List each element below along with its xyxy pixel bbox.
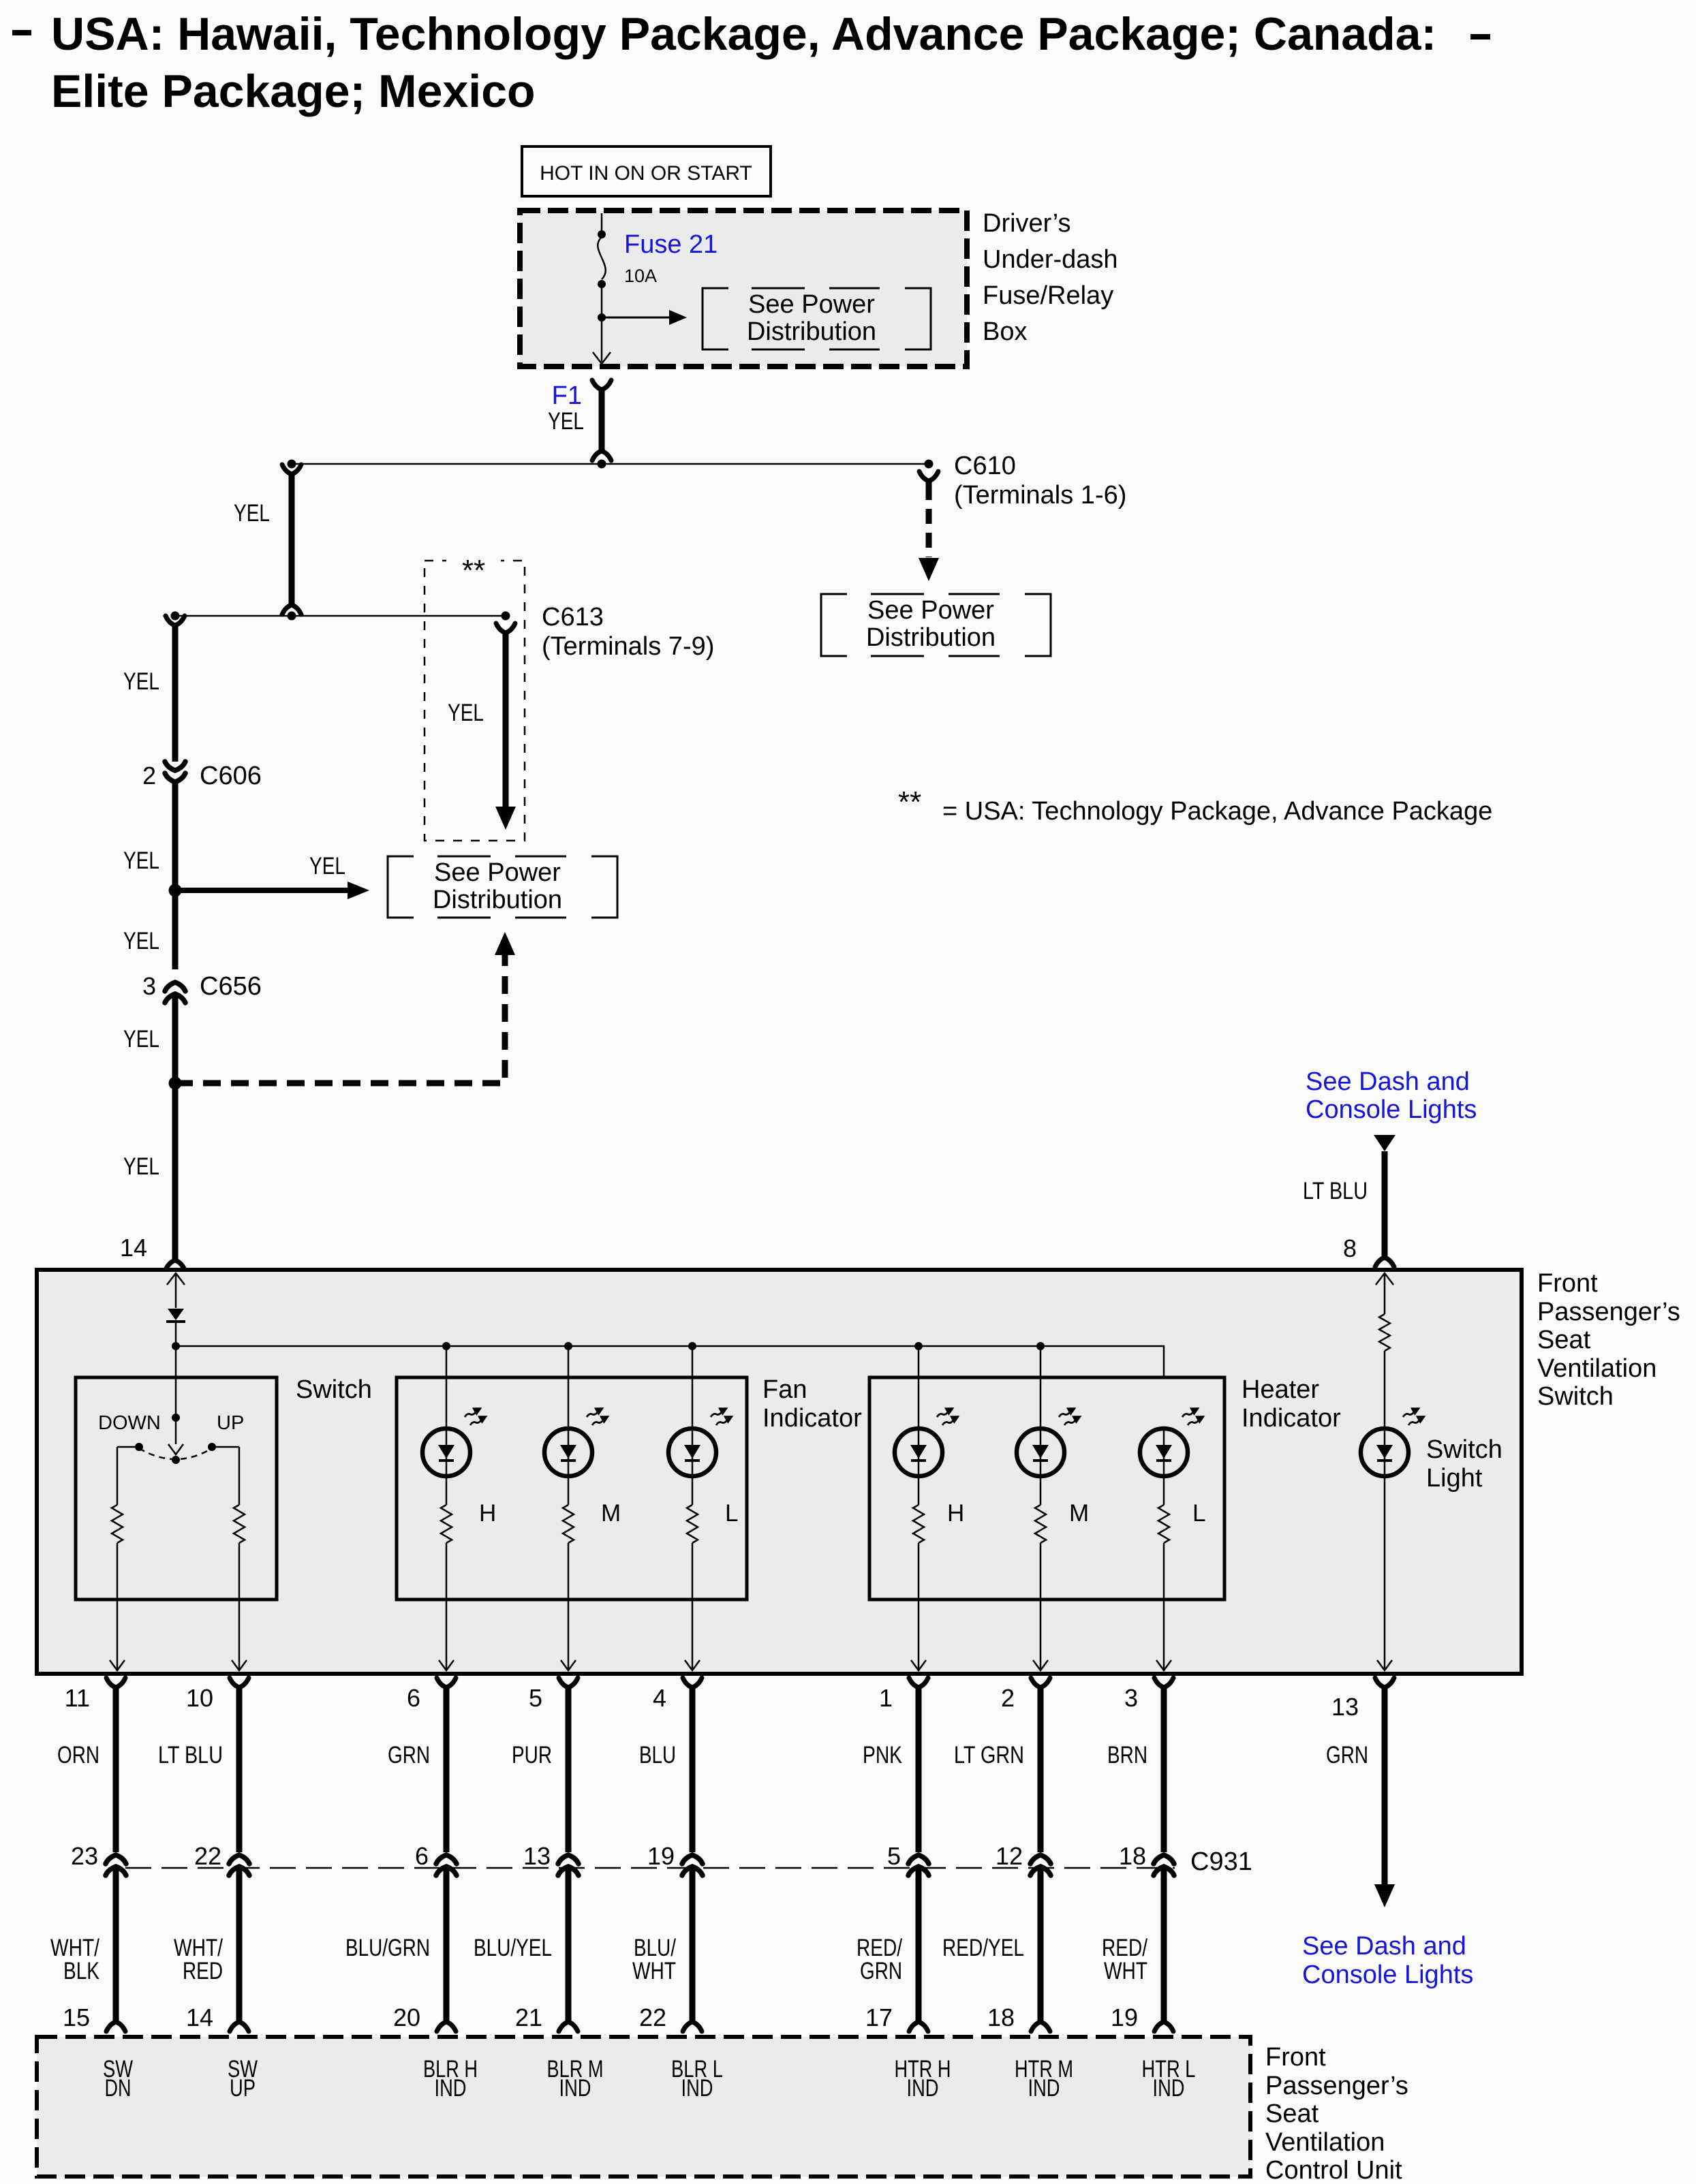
junction (914, 1342, 923, 1350)
junction + dashed branch up to power distribution (169, 1077, 182, 1090)
svg-text:17: 17 (865, 2003, 893, 2031)
svg-text:IND: IND (1028, 2075, 1060, 2102)
wire YEL (172, 783, 179, 969)
svg-text:22: 22 (194, 1842, 221, 1870)
svg-text:Elite Package; Mexico: Elite Package; Mexico (51, 65, 536, 117)
svg-text:PUR: PUR (512, 1742, 552, 1768)
fuse Fuse 21 10A (598, 237, 606, 279)
svg-text:21: 21 (515, 2003, 542, 2031)
connector C931 pin 19 (682, 1855, 703, 1864)
svg-text:BLK: BLK (63, 1958, 99, 1984)
svg-text:DN: DN (105, 2075, 132, 2102)
svg-text:5: 5 (887, 1842, 901, 1870)
heater LED M (1040, 1346, 1042, 1429)
svg-text:GRN: GRN (1326, 1742, 1368, 1768)
svg-text:12: 12 (996, 1842, 1023, 1870)
junction on bus line 1 (598, 460, 606, 469)
svg-text:Seat: Seat (1537, 1326, 1591, 1354)
svg-text:M: M (601, 1500, 621, 1527)
svg-text:YEL: YEL (123, 668, 159, 695)
svg-text:LT GRN: LT GRN (954, 1742, 1024, 1768)
wire bus line 2 (175, 615, 506, 617)
svg-text:RED: RED (183, 1958, 223, 1984)
node HOT IN ON OR START (522, 146, 771, 196)
svg-text:YEL: YEL (123, 1153, 159, 1180)
diode (168, 1309, 184, 1320)
svg-text:IND: IND (1153, 2075, 1185, 2102)
svg-text:Ventilation: Ventilation (1537, 1354, 1656, 1383)
svg-text:Ventilation: Ventilation (1265, 2128, 1385, 2157)
svg-text:C931: C931 (1190, 1847, 1252, 1876)
svg-text:See Dash and: See Dash and (1302, 1932, 1466, 1961)
wire YEL main left drop (166, 616, 185, 625)
Front Passenger’s Seat Ventilation Switch box (37, 1270, 1522, 1674)
svg-text:11: 11 (65, 1684, 90, 1712)
svg-text:10: 10 (186, 1684, 213, 1712)
svg-text:Fuse/Relay: Fuse/Relay (983, 281, 1113, 310)
svg-text:Front: Front (1537, 1269, 1598, 1298)
svg-text:Light: Light (1426, 1464, 1483, 1493)
wire YEL to power distribution (C613) (503, 633, 509, 807)
open arrow at box exit (593, 352, 611, 364)
svg-text:LT BLU: LT BLU (1303, 1178, 1368, 1204)
svg-text:Switch: Switch (1426, 1435, 1502, 1464)
svg-text:Front: Front (1265, 2043, 1326, 2072)
svg-text:10A: 10A (624, 266, 657, 286)
junction (688, 1342, 696, 1350)
svg-text:6: 6 (415, 1842, 429, 1870)
junction (172, 1342, 180, 1350)
optional (**) dashed outline (425, 561, 525, 841)
svg-text:Switch: Switch (296, 1375, 372, 1404)
connector C931 pin 13 (558, 1855, 579, 1864)
Driver's Under-dash Fuse/Relay Box (520, 210, 967, 366)
svg-text:F1: F1 (552, 381, 582, 410)
svg-text:C656: C656 (200, 972, 262, 1001)
svg-text:= USA: Technology Package, Adv: = USA: Technology Package, Advance Packa… (942, 797, 1492, 826)
svg-text:6: 6 (407, 1684, 420, 1712)
switch light wire internal (1376, 1273, 1393, 1285)
svg-text:19: 19 (647, 1842, 675, 1870)
svg-text:Indicator: Indicator (762, 1404, 862, 1433)
svg-text:UP: UP (230, 2075, 256, 2102)
svg-text:(Terminals 7-9): (Terminals 7-9) (542, 632, 714, 661)
svg-text:18: 18 (987, 2003, 1015, 2031)
svg-text:UP: UP (217, 1412, 244, 1434)
svg-text:PNK: PNK (863, 1742, 902, 1768)
Switch block (76, 1377, 277, 1600)
connector C931 pin 18 (1154, 1855, 1174, 1864)
svg-text:20: 20 (393, 2003, 420, 2031)
wire YEL (172, 995, 179, 1260)
Fan Indicator block (397, 1377, 747, 1600)
svg-text:L: L (725, 1500, 738, 1527)
svg-text:See Power: See Power (867, 596, 994, 625)
svg-text:Indicator: Indicator (1242, 1404, 1341, 1433)
svg-text:**: ** (898, 785, 921, 819)
svg-text:Switch: Switch (1537, 1382, 1614, 1411)
svg-text:1: 1 (879, 1684, 893, 1712)
wire YEL (left drop) (282, 465, 301, 474)
svg-text:2: 2 (1001, 1684, 1015, 1712)
svg-text:BLU/YEL: BLU/YEL (474, 1935, 552, 1961)
svg-text:See Dash and: See Dash and (1306, 1067, 1470, 1096)
svg-text:WHT: WHT (632, 1958, 676, 1984)
connector C931 dashed line (125, 1867, 1175, 1869)
svg-text:See Power: See Power (434, 858, 561, 887)
switch light LED (1361, 1429, 1408, 1476)
wire branch to power distribution (602, 317, 671, 319)
svg-text:YEL: YEL (548, 408, 584, 435)
connector C931 pin 22 (229, 1855, 249, 1864)
svg-text:H: H (947, 1500, 964, 1527)
svg-text:IND: IND (435, 2075, 467, 2102)
svg-text:Console Lights: Console Lights (1302, 1961, 1473, 1989)
svg-text:IND: IND (559, 2075, 591, 2102)
wire internal bus (176, 1346, 1164, 1377)
svg-text:GRN: GRN (388, 1742, 430, 1768)
node See Power Distribution (fuse box) (703, 288, 728, 349)
svg-text:Console Lights: Console Lights (1306, 1095, 1477, 1124)
node See Power Distribution (middle) (388, 856, 414, 918)
svg-text:Distribution: Distribution (866, 623, 996, 652)
svg-text:Under-dash: Under-dash (983, 245, 1118, 274)
svg-text:13: 13 (523, 1842, 551, 1870)
svg-text:C610: C610 (954, 452, 1016, 480)
svg-text:14: 14 (120, 1234, 147, 1262)
connector C606 pin 2 (165, 762, 185, 770)
svg-text:HOT IN ON OR START: HOT IN ON OR START (540, 162, 752, 185)
svg-text:(Terminals 1-6): (Terminals 1-6) (954, 481, 1126, 510)
connector C656 pin 3 (165, 982, 185, 991)
svg-text:22: 22 (639, 2003, 666, 2031)
svg-text:IND: IND (907, 2075, 939, 2102)
heater LED H (918, 1346, 920, 1429)
svg-text:YEL: YEL (448, 700, 484, 726)
svg-text:BLU/GRN: BLU/GRN (345, 1935, 430, 1961)
fan LED L (692, 1346, 694, 1429)
junction + branch arrow to power distribution (169, 884, 182, 897)
svg-text:YEL: YEL (309, 853, 345, 879)
fan LED H (446, 1346, 448, 1429)
wire fuse output (601, 284, 603, 362)
svg-text:23: 23 (71, 1842, 98, 1870)
svg-text:IND: IND (681, 2075, 713, 2102)
svg-text:Fuse 21: Fuse 21 (624, 230, 718, 259)
svg-text:Driver’s: Driver’s (983, 209, 1071, 238)
svg-text:Passenger’s: Passenger’s (1537, 1298, 1680, 1326)
wire pin14 internal + diode (167, 1273, 185, 1285)
svg-text:Seat: Seat (1265, 2100, 1319, 2128)
wire bus line 1 (292, 463, 929, 465)
svg-text:YEL: YEL (234, 500, 270, 527)
svg-text:DOWN: DOWN (98, 1412, 161, 1434)
junction (442, 1342, 450, 1350)
svg-text:2: 2 (142, 762, 156, 790)
svg-text:4: 4 (653, 1684, 666, 1712)
connector C931 pin 23 (106, 1855, 126, 1864)
connector C931 pin 5 (908, 1855, 929, 1864)
wire to switch common (175, 1346, 177, 1444)
svg-text:Fan: Fan (762, 1375, 807, 1404)
svg-text:C613: C613 (542, 603, 604, 631)
svg-text:8: 8 (1343, 1234, 1357, 1262)
svg-text:BRN: BRN (1107, 1742, 1147, 1768)
svg-text:Passenger’s: Passenger’s (1265, 2072, 1408, 2100)
svg-text:3: 3 (1124, 1684, 1138, 1712)
svg-text:18: 18 (1119, 1842, 1146, 1870)
svg-text:YEL: YEL (123, 928, 159, 954)
svg-text:Distribution: Distribution (433, 886, 562, 914)
wire LT BLU (1374, 1135, 1396, 1151)
Front Passenger’s Seat Ventilation Control Unit box (37, 2037, 1250, 2177)
junction (1036, 1342, 1045, 1350)
svg-text:5: 5 (529, 1684, 542, 1712)
svg-text:15: 15 (63, 2003, 90, 2031)
svg-text:USA: Hawaii, Technology Packag: USA: Hawaii, Technology Package, Advance… (51, 8, 1436, 60)
connector C931 pin 6 (436, 1855, 457, 1864)
svg-text:3: 3 (142, 972, 156, 1000)
svg-text:13: 13 (1331, 1693, 1359, 1721)
switch resistor legs (117, 1446, 139, 1448)
svg-text:Box: Box (983, 317, 1027, 346)
Heater Indicator block (869, 1377, 1224, 1600)
svg-text:**: ** (462, 554, 485, 587)
svg-text:BLU: BLU (639, 1742, 676, 1768)
svg-text:19: 19 (1111, 2003, 1138, 2031)
fan LED M (568, 1346, 570, 1429)
svg-text:H: H (479, 1500, 496, 1527)
junction (564, 1342, 572, 1350)
connector C931 pin 12 (1030, 1855, 1051, 1864)
svg-text:M: M (1069, 1500, 1089, 1527)
svg-text:WHT: WHT (1104, 1958, 1147, 1984)
svg-text:See Power: See Power (748, 290, 875, 319)
node See Power Distribution (C610) (821, 594, 847, 656)
svg-text:LT BLU: LT BLU (158, 1742, 223, 1768)
heater LED L (1140, 1429, 1188, 1476)
wire hot feed inside fuse box (601, 213, 603, 234)
svg-text:L: L (1192, 1500, 1205, 1527)
svg-text:RED/YEL: RED/YEL (942, 1935, 1024, 1961)
svg-text:14: 14 (186, 2003, 213, 2031)
svg-text:Control Unit: Control Unit (1265, 2156, 1402, 2184)
svg-text:YEL: YEL (123, 1026, 159, 1052)
svg-text:C606: C606 (200, 762, 262, 790)
svg-text:Heater: Heater (1242, 1375, 1319, 1404)
svg-text:YEL: YEL (123, 847, 159, 874)
svg-text:GRN: GRN (860, 1958, 902, 1984)
svg-text:Distribution: Distribution (747, 317, 876, 346)
junction (598, 313, 606, 322)
svg-text:ORN: ORN (57, 1742, 99, 1768)
